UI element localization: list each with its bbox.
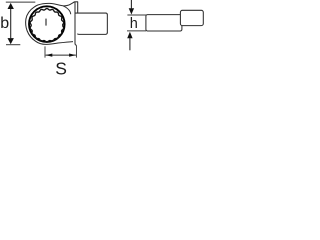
dimension h: lower arrowhead (points up): [127, 32, 132, 39]
svg-text:b: b: [0, 15, 9, 32]
neck right vertical: [77, 2, 79, 13]
dimension b: top extension line: [6, 1, 36, 3]
dimension S: left extension line: [44, 46, 46, 57]
shank bottom edge: [77, 32, 107, 34]
12-point hole back face edge (upper arc): [30, 9, 63, 43]
dimension S: left arrowhead: [46, 54, 53, 57]
12-point hole profile (front face, thick): [29, 6, 65, 42]
dimension S: right extension line: [75, 45, 77, 57]
dimension b: bottom extension line: [6, 44, 20, 46]
ring outer silhouette + neck + shank outline: [26, 2, 75, 45]
dimension h: lower arrow line: [129, 38, 131, 50]
side view: head plate: [146, 15, 182, 31]
shank right edge: [106, 15, 108, 33]
side view: shank bar (drawn over head plate): [180, 10, 203, 25]
dimension S: right arrowhead: [69, 54, 76, 57]
dimension b: lower arrowhead: [8, 38, 14, 44]
dimension S: dimension line: [46, 54, 76, 56]
neck bend line (left vertical): [75, 2, 77, 45]
svg-text:S: S: [55, 59, 67, 76]
neck tab top edge: [74, 1, 78, 3]
shank top edge: [75, 13, 107, 15]
svg-text:h: h: [130, 16, 138, 32]
dimension h: lower extension line: [127, 30, 146, 32]
hole centre tick: [45, 19, 47, 26]
dimension h: upper arrowhead (points down): [129, 8, 134, 14]
dimension h: upper arrow line: [130, 0, 132, 8]
ring outer edge continuing into neck (interior contour): [63, 6, 70, 14]
dimension h: upper extension line: [127, 14, 146, 16]
circuit-free technical drawing of a ring insert tool: [0, 0, 205, 76]
dimension b: vertical dimension line: [10, 9, 12, 39]
dimension b: upper arrowhead: [8, 3, 14, 9]
